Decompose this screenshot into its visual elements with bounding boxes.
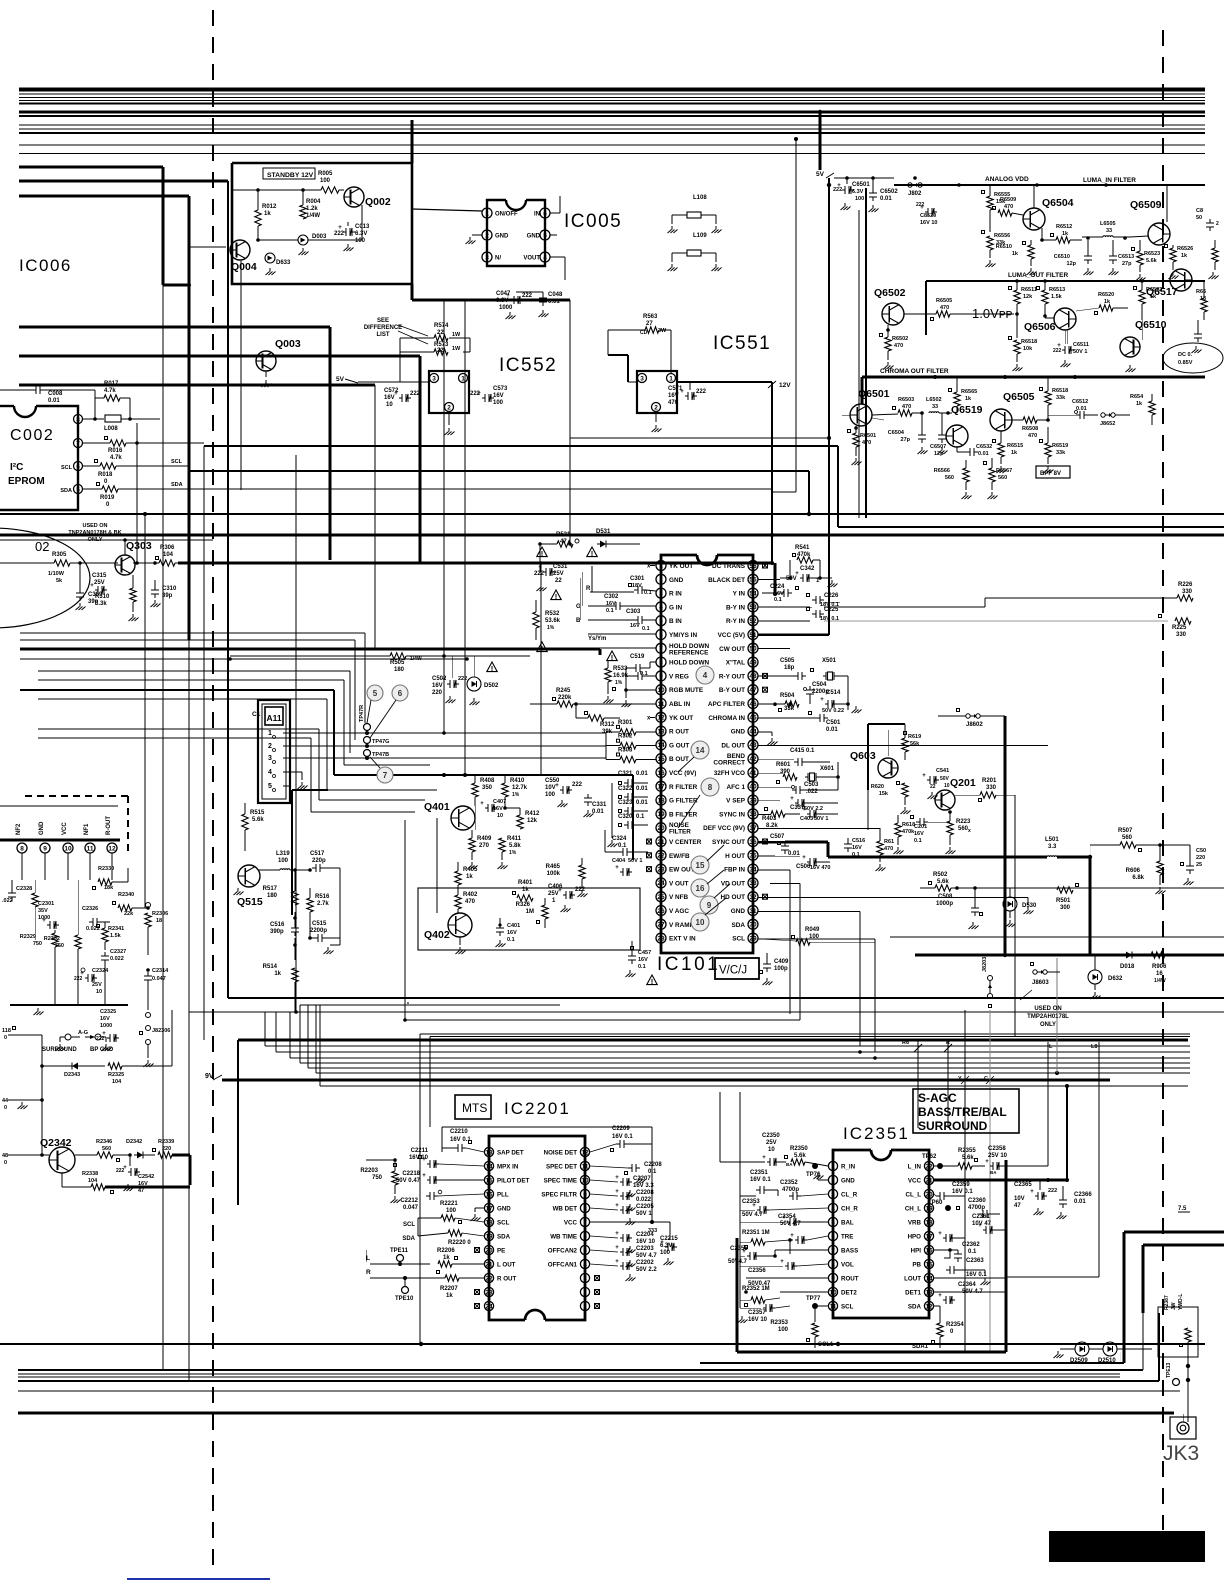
svg-text:4.7k: 4.7k <box>110 455 122 461</box>
svg-text:55: 55 <box>749 577 757 584</box>
svg-text:54: 54 <box>749 590 757 597</box>
svg-text:C201: C201 <box>914 824 927 830</box>
svg-text:22: 22 <box>925 1163 933 1170</box>
svg-text:R2220 0: R2220 0 <box>448 1240 471 1246</box>
svg-text:1M: 1M <box>526 909 534 915</box>
resistor R515 <box>242 803 265 851</box>
svg-text:C6507: C6507 <box>930 444 946 450</box>
svg-text:15: 15 <box>485 1177 493 1184</box>
svg-text:24: 24 <box>485 1303 493 1310</box>
wire left thick y196 <box>19 196 189 640</box>
svg-text:BP GND: BP GND <box>90 1047 114 1053</box>
svg-text:0.1: 0.1 <box>638 964 646 970</box>
wire Q303 out <box>133 561 213 565</box>
svg-text:DIFFERENCE: DIFFERENCE <box>364 325 402 331</box>
svg-text:R2325: R2325 <box>108 1072 124 1078</box>
svg-text:1k: 1k <box>1012 251 1019 257</box>
stub pin 44 <box>2 1066 44 1111</box>
svg-text:R533: R533 <box>613 666 628 672</box>
svg-text:R306: R306 <box>160 545 175 551</box>
resistor R2207 <box>370 1271 484 1300</box>
svg-text:16: 16 <box>1156 971 1163 977</box>
svg-text:R049: R049 <box>805 927 820 933</box>
svg-text:27p: 27p <box>901 437 911 443</box>
wire pin53 b-y <box>758 602 985 607</box>
svg-text:JK3: JK3 <box>1163 1442 1199 1465</box>
capacitor C517 <box>308 851 340 872</box>
capacitor C201 <box>911 816 951 845</box>
svg-text:R6: R6 <box>902 1040 909 1046</box>
svg-text:45: 45 <box>749 715 757 722</box>
svg-text:R6515: R6515 <box>1007 443 1023 449</box>
pin IC2201-4 OFFCAN1 <box>548 1259 590 1268</box>
warning triangle IC101 bottom <box>407 1002 408 1003</box>
svg-text:12V: 12V <box>779 382 791 389</box>
svg-text:R2338: R2338 <box>82 1171 98 1177</box>
capacitor C6512 <box>1048 399 1098 419</box>
pin IC101-46 APC FILTER <box>708 699 758 709</box>
resistor R2355 <box>958 1148 985 1169</box>
svg-text:16V 10: 16V 10 <box>636 1239 656 1245</box>
svg-text:Q6505: Q6505 <box>1003 391 1035 403</box>
svg-text:CHROMA IN: CHROMA IN <box>708 715 745 722</box>
svg-text:C310: C310 <box>162 586 177 592</box>
svg-text:222: 222 <box>534 571 545 577</box>
capacitor C502m <box>432 656 467 703</box>
svg-text:R412: R412 <box>525 811 540 817</box>
svg-text:22: 22 <box>485 1275 493 1282</box>
svg-text:VOL: VOL <box>841 1262 854 1269</box>
capacitor C301 <box>600 576 656 596</box>
svg-text:0.85V: 0.85V <box>1178 360 1193 366</box>
label SURROUND <box>42 1047 77 1053</box>
wire top bus 4 <box>19 100 1205 102</box>
svg-text:15: 15 <box>696 861 705 870</box>
svg-text:470k: 470k <box>902 829 915 835</box>
svg-text:R410: R410 <box>510 778 525 784</box>
pin IC101-2 GND <box>656 574 684 584</box>
svg-text:33: 33 <box>749 880 757 887</box>
svg-text:100: 100 <box>545 792 556 798</box>
label IC2201 <box>504 1099 571 1118</box>
svg-text:BA: BA <box>990 1170 997 1175</box>
svg-text:R516: R516 <box>315 894 330 900</box>
pin IC2201-16 PLL <box>484 1189 509 1198</box>
svg-text:CD: CD <box>640 330 648 336</box>
svg-text:0.1: 0.1 <box>618 843 627 849</box>
inductor L109 <box>668 233 722 271</box>
svg-text:VCC (9V): VCC (9V) <box>669 770 696 777</box>
svg-text:1.5k: 1.5k <box>110 933 122 939</box>
svg-text:R2330: R2330 <box>98 866 114 872</box>
svg-text:SYNC IN: SYNC IN <box>719 811 745 818</box>
svg-text:33k: 33k <box>784 706 795 712</box>
svg-text:21: 21 <box>925 1177 933 1184</box>
svg-text:42: 42 <box>749 756 757 763</box>
pin IC002-7 <box>74 439 83 448</box>
pin IC2201-22 R OUT <box>484 1273 516 1282</box>
wire pin32 HD OUT <box>770 884 800 1020</box>
svg-text:D003: D003 <box>312 234 327 240</box>
svg-text:R2387: R2387 <box>1164 1295 1170 1310</box>
svg-text:10: 10 <box>657 687 665 694</box>
svg-text:VCC: VCC <box>908 1178 922 1185</box>
capacitor C2301 <box>38 901 59 929</box>
capacitor C324 <box>605 830 648 856</box>
jumper J8203 vertical <box>982 957 993 1008</box>
pin IC101-15 B OUT <box>656 754 689 764</box>
svg-text:31: 31 <box>749 908 757 915</box>
svg-text:118: 118 <box>2 1028 11 1034</box>
svg-text:C401: C401 <box>507 923 520 929</box>
wire IC005 lower rail <box>412 284 572 546</box>
node circled 15 <box>691 845 724 874</box>
label BP GND <box>90 1047 114 1053</box>
resistor R2325 <box>108 1010 172 1085</box>
resistor R906 <box>1151 952 1205 984</box>
svg-text:50V: 50V <box>940 776 950 782</box>
svg-text:V NFB: V NFB <box>669 894 689 901</box>
jumper A-G surround <box>56 1030 112 1051</box>
resistor R225 <box>1159 615 1192 639</box>
svg-text:222: 222 <box>458 676 467 682</box>
svg-text:220k: 220k <box>558 695 572 701</box>
svg-text:TPE11: TPE11 <box>390 1248 409 1254</box>
svg-text:16: 16 <box>696 884 705 893</box>
svg-text:TP77: TP77 <box>806 1296 821 1302</box>
svg-text:14: 14 <box>485 1163 493 1170</box>
svg-text:V REG: V REG <box>669 673 689 680</box>
wire x1090 drop <box>1089 857 1092 955</box>
wire IC552 left <box>358 338 470 425</box>
wire right elbow y1245 <box>1143 1245 1224 1313</box>
node circled 5 <box>367 685 383 723</box>
svg-text:16V: 16V <box>493 806 503 812</box>
svg-text:R223: R223 <box>956 819 971 825</box>
svg-text:3: 3 <box>659 590 663 597</box>
label IC2351 <box>843 1124 910 1143</box>
svg-text:R405: R405 <box>463 867 478 873</box>
pin IC101-54 Y IN <box>733 588 758 598</box>
capacitor C8520 <box>916 202 937 226</box>
svg-text:R411: R411 <box>507 836 522 842</box>
svg-text:I²C: I²C <box>10 462 23 473</box>
svg-text:TP62: TP62 <box>922 1154 937 1160</box>
pin IC101-55 BLACK DET <box>708 574 758 584</box>
resistor R6519 <box>1040 427 1069 473</box>
pin IC2351-2 GND <box>828 1175 855 1184</box>
wire band left 671 <box>38 671 350 753</box>
svg-text:C6511: C6511 <box>1073 342 1089 348</box>
svg-text:FBP IN: FBP IN <box>724 867 745 874</box>
transistor Q2342 <box>40 1137 75 1173</box>
svg-text:R619: R619 <box>908 734 921 740</box>
svg-text:C6512: C6512 <box>1072 399 1088 405</box>
svg-text:J802: J802 <box>908 191 922 197</box>
svg-text:C508: C508 <box>938 894 953 900</box>
svg-text:JW: JW <box>1171 1302 1177 1310</box>
wire Q002 internals <box>231 190 362 246</box>
svg-text:22: 22 <box>437 348 444 354</box>
pin IC551-1 <box>667 374 676 383</box>
svg-text:CORRECT: CORRECT <box>713 760 745 767</box>
footer black box <box>1049 1531 1205 1562</box>
svg-text:V SEP: V SEP <box>726 798 746 805</box>
svg-text:16V 10: 16V 10 <box>748 1317 768 1323</box>
capacitor C2356b tre <box>788 1233 828 1254</box>
resistor R2329 <box>20 930 58 1005</box>
svg-text:+: + <box>422 1173 426 1179</box>
svg-text:Q6510: Q6510 <box>1135 319 1167 331</box>
resistor R6555 <box>982 185 1011 232</box>
svg-text:R2354: R2354 <box>946 1322 964 1328</box>
pin IC101-40 AFC 1 <box>727 781 758 791</box>
svg-text:R2207: R2207 <box>440 1286 458 1292</box>
jumper J8602 <box>938 709 1005 956</box>
svg-text:5: 5 <box>831 1219 835 1226</box>
svg-text:C323: C323 <box>618 800 633 806</box>
resistor R6508 <box>1012 417 1050 439</box>
svg-text:R2339: R2339 <box>158 1139 174 1145</box>
resistor R019 <box>97 483 119 509</box>
pin IC101-53 B-Y IN <box>726 602 758 612</box>
svg-text:B FILTER: B FILTER <box>669 811 698 818</box>
capacitor C2351 <box>750 1170 778 1194</box>
svg-text:BAL: BAL <box>841 1220 854 1227</box>
wire pin33 VD OUT <box>758 870 790 1014</box>
wire vertical x444 <box>442 300 446 735</box>
svg-text:1: 1 <box>831 1163 835 1170</box>
svg-text:12.7k: 12.7k <box>512 785 528 791</box>
svg-text:0.01: 0.01 <box>48 398 60 404</box>
svg-text:.022: .022 <box>2 898 13 904</box>
wire Q401 feedback <box>420 818 448 913</box>
diode D2509 <box>1054 1342 1090 1364</box>
svg-text:C506: C506 <box>796 864 811 870</box>
pin IC002-5 SDA <box>60 485 82 495</box>
svg-text:20: 20 <box>657 825 665 832</box>
svg-text:Q004: Q004 <box>231 261 257 273</box>
svg-text:Y IN: Y IN <box>733 591 746 598</box>
svg-text:R6513: R6513 <box>1049 287 1065 293</box>
node circled 10 <box>691 898 726 931</box>
svg-text:BPF 8V: BPF 8V <box>1040 471 1061 477</box>
svg-text:470k: 470k <box>797 552 811 558</box>
wire pins13-15 left bus <box>576 732 620 760</box>
svg-text:C541: C541 <box>936 768 949 774</box>
svg-text:R514: R514 <box>263 964 278 970</box>
svg-text:222: 222 <box>696 389 707 395</box>
inductor L108 <box>668 195 722 233</box>
op-amp IC552 body <box>429 371 469 413</box>
svg-text:21: 21 <box>485 1261 493 1268</box>
pin IC552-3 <box>430 374 439 383</box>
wire thick y1080 band <box>222 1079 1110 1082</box>
warning triangle R532 <box>537 642 547 652</box>
wire pin14 lout <box>934 1277 1005 1279</box>
svg-text:R_IN: R_IN <box>841 1164 856 1171</box>
capacitor C407 <box>480 799 506 819</box>
transistor Q6506 <box>1024 308 1076 333</box>
audio IC2351 body <box>833 1150 929 1318</box>
resistor R619 <box>902 724 921 760</box>
pin IC2351-6 TRE <box>828 1231 853 1240</box>
resistor R6518d <box>1040 377 1069 420</box>
svg-text:37: 37 <box>749 825 757 832</box>
svg-text:C6501: C6501 <box>852 182 870 188</box>
svg-text:R61: R61 <box>884 839 894 845</box>
capacitor C226 <box>758 593 839 608</box>
transistor Q6505 <box>990 391 1035 431</box>
ground IC2201 pin17 <box>471 1208 485 1221</box>
pin IC101-32 HD OUT <box>721 892 768 902</box>
resistor R531 <box>538 532 579 547</box>
svg-text:3W: 3W <box>658 328 667 334</box>
svg-text:GND: GND <box>669 577 684 584</box>
svg-text:104: 104 <box>88 1178 98 1184</box>
svg-text:+: + <box>615 1189 619 1195</box>
svg-text:L108: L108 <box>693 195 707 201</box>
pin IC101-4 G IN <box>656 602 683 612</box>
svg-text:9V: 9V <box>205 1073 214 1080</box>
resistor R507 <box>1090 828 1162 857</box>
svg-text:16V: 16V <box>100 1016 110 1022</box>
svg-text:1k: 1k <box>446 1293 453 1299</box>
svg-text:1/4W: 1/4W <box>1154 978 1166 984</box>
capacitor C6507 <box>930 413 948 457</box>
inductor L501 <box>785 837 1092 859</box>
svg-text:LOUT: LOUT <box>904 1276 921 1283</box>
capacitor C2359 real <box>0 0 1 1</box>
pin IC101-5 B IN <box>656 616 682 626</box>
svg-text:R2206: R2206 <box>437 1248 455 1254</box>
resistor R310 <box>95 575 136 612</box>
svg-text:R004: R004 <box>306 199 321 205</box>
resistor R2306 <box>145 903 168 956</box>
pin IC101-48 R-Y OUT <box>719 671 768 681</box>
svg-text:5: 5 <box>583 1247 587 1254</box>
svg-text:R6565: R6565 <box>961 389 977 395</box>
diode D2510 <box>1089 1342 1152 1364</box>
svg-text:SCL: SCL <box>61 465 73 471</box>
svg-text:V OUT: V OUT <box>669 880 689 887</box>
resistor R6503 <box>872 397 924 416</box>
svg-text:16V: 16V <box>668 393 679 399</box>
svg-text:12: 12 <box>925 1303 933 1310</box>
svg-text:5.6k: 5.6k <box>252 817 264 823</box>
wire Q004 emitter down <box>240 261 242 490</box>
svg-text:50V 1: 50V 1 <box>814 816 828 822</box>
pin IC101-6 YM/YS IN <box>656 630 697 640</box>
capacitor C509m <box>1160 845 1206 885</box>
svg-text:D632: D632 <box>1108 976 1123 982</box>
svg-text:IC552: IC552 <box>499 355 557 376</box>
svg-text:R301: R301 <box>618 720 633 726</box>
svg-text:100: 100 <box>778 1327 789 1333</box>
svg-text:R6520: R6520 <box>1098 292 1114 298</box>
svg-text:D530: D530 <box>1022 903 1037 909</box>
resistor R620 <box>871 782 911 815</box>
svg-text:1k: 1k <box>1104 299 1111 305</box>
svg-text:C8520: C8520 <box>920 213 936 219</box>
svg-text:C2361: C2361 <box>972 1214 990 1220</box>
svg-text:2200p: 2200p <box>310 928 327 934</box>
test point TPE13 <box>1166 1362 1190 1414</box>
svg-text:6: 6 <box>398 689 403 698</box>
label B input <box>576 618 581 624</box>
capacitor C2356 <box>740 1259 828 1287</box>
resistor R618b <box>876 828 895 871</box>
svg-text:10: 10 <box>829 1289 837 1296</box>
svg-text:R-Y OUT: R-Y OUT <box>719 673 745 680</box>
resistor R6524 edge <box>1209 240 1219 279</box>
ground IC005 pin2 <box>466 235 483 244</box>
capacitor C309 <box>76 589 104 610</box>
svg-text:D502: D502 <box>484 683 499 689</box>
svg-text:C2328: C2328 <box>16 886 32 892</box>
warning triangle C457 <box>647 975 657 985</box>
capacitor C302 <box>588 594 656 614</box>
svg-text:HPI: HPI <box>911 1248 922 1255</box>
svg-text:14: 14 <box>925 1275 933 1282</box>
wire ellipse area <box>0 561 118 589</box>
svg-text:R6510: R6510 <box>996 244 1012 250</box>
svg-text:1k: 1k <box>274 971 281 977</box>
capacitor C2366 <box>1048 1180 1092 1219</box>
wire right elbow y1232 <box>1124 1232 1224 1363</box>
capacitor C404 <box>612 858 642 876</box>
wire audio bottom rail <box>10 840 128 1015</box>
svg-text:33k: 33k <box>1056 395 1066 401</box>
pin IC2201-15 PILOT DET <box>484 1175 529 1184</box>
capacitor vrb <box>934 1222 965 1242</box>
svg-text:R326: R326 <box>516 902 531 908</box>
svg-text:SDA: SDA <box>402 1236 415 1242</box>
pin IC101-36 SYNC OUT <box>712 837 768 847</box>
svg-text:22: 22 <box>657 853 665 860</box>
pin IC2201-11 SPEC DET <box>546 1161 590 1170</box>
pin IC002-6 SCL <box>61 462 83 472</box>
resistor R6505 <box>904 298 958 321</box>
svg-text:48: 48 <box>2 1153 8 1159</box>
wire pin52 r-y grey <box>758 620 1168 622</box>
svg-text:G FILTER: G FILTER <box>669 798 698 805</box>
wire pin7 hold down ref <box>600 648 656 655</box>
pin IC2201-1 <box>580 1301 599 1310</box>
svg-text:+: + <box>938 1293 942 1299</box>
svg-text:2: 2 <box>268 743 272 750</box>
svg-text:IC005: IC005 <box>564 211 622 232</box>
svg-text:8: 8 <box>659 659 663 666</box>
svg-text:16V 10: 16V 10 <box>920 220 937 226</box>
svg-text:C047: C047 <box>496 291 511 297</box>
resistor R505 <box>230 653 530 673</box>
pin audioIC-9 GND <box>39 821 50 880</box>
wire bus drop to analog section <box>819 112 822 170</box>
wire top bus 10 <box>19 132 1205 134</box>
resistor R303 <box>606 748 656 763</box>
resistor R6523 <box>1132 240 1161 281</box>
resistor R201 <box>955 778 1015 1037</box>
svg-text:ABL IN: ABL IN <box>669 701 691 708</box>
pin IC2201-14 MPX IN <box>484 1161 518 1170</box>
svg-text:560: 560 <box>1122 835 1133 841</box>
pin IC101-49 X"TAL <box>726 657 758 667</box>
wire top bus 1 <box>19 88 1205 92</box>
label IC005 <box>564 211 622 232</box>
svg-text:R2306: R2306 <box>152 911 168 917</box>
svg-text:R2353: R2353 <box>770 1320 788 1326</box>
